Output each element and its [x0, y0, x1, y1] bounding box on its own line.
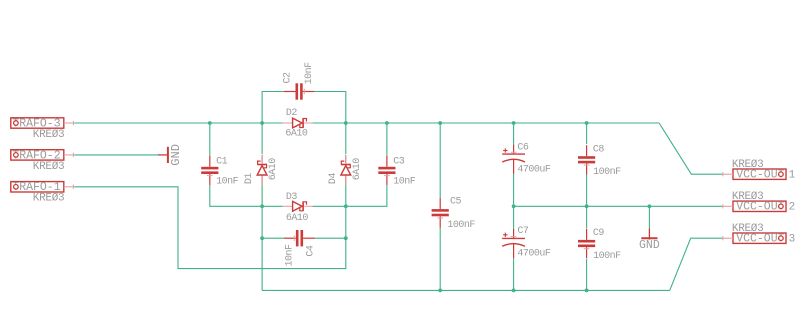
wire left bridge column down to bottom rail: [261, 206, 263, 290]
wire C8 bottom to mid rail: [586, 175, 588, 207]
svg-text:D3: D3: [286, 192, 298, 203]
connector X1 TRAFO-3 (KRE03): [11, 117, 74, 140]
connector X6 VCC-OUT pin 3 (KRE03): [723, 223, 796, 246]
wire top rail left segment (AC1): [74, 122, 283, 124]
wire C6 bottom to mid rail: [513, 174, 515, 206]
ground GND2 (on output mid rail): [639, 228, 660, 252]
wire TRAFO-2 to GND: [74, 154, 158, 156]
wire top rail right segment (V+ rail): [313, 122, 659, 124]
label C9 value: [593, 251, 621, 262]
label C4 name: [306, 245, 317, 257]
wire left bridge column upper (to D1 cathode): [261, 123, 263, 154]
svg-text:KREØ3: KREØ3: [33, 161, 65, 173]
svg-text:C5: C5: [450, 196, 462, 207]
label D2 name: [286, 108, 298, 119]
wire mid rail (VCC-OUT 2): [514, 205, 723, 207]
svg-text:C3: C3: [393, 157, 405, 168]
connector X5 VCC-OUT pin 2 (KRE03): [723, 191, 796, 214]
junction at (262.1,206.3) on mid wire: [260, 204, 264, 208]
junction at (386.9,123.0) on top rail: [385, 121, 389, 125]
wire TRAFO-1 route to bridge: [74, 187, 346, 269]
label C2 name: [283, 72, 294, 84]
diode D3 (6A10): [283, 201, 313, 211]
label D4 name: [328, 173, 339, 185]
wire C4 segment right: [314, 237, 345, 239]
svg-text:1: 1: [789, 170, 796, 182]
svg-text:10nF: 10nF: [393, 177, 416, 188]
label C3 value: [393, 177, 416, 188]
svg-text:D2: D2: [286, 108, 298, 119]
svg-text:6A10: 6A10: [352, 158, 363, 181]
svg-text:100nF: 100nF: [593, 251, 621, 262]
svg-text:KREØ3: KREØ3: [732, 191, 764, 203]
capacitor C4: [284, 230, 315, 246]
wire C9 top connection: [586, 206, 588, 228]
junction at (586.6,123.0) on top rail: [585, 121, 589, 125]
wire right bridge column upper (to D4 cathode): [345, 123, 347, 154]
svg-text:3: 3: [789, 234, 796, 246]
wire left bridge column lower (D1 anode to mid node): [261, 185, 263, 206]
junction at (262.1,123.0) on top rail: [260, 121, 264, 125]
capacitor C9: [578, 229, 595, 258]
junction at (440.2,123.0) on top rail: [438, 121, 442, 125]
label C8 name: [593, 144, 605, 155]
wire D3 segment left: [262, 205, 283, 207]
junction at (586.6,290.4) on bottom rail: [585, 289, 589, 293]
svg-text:C7: C7: [517, 226, 529, 237]
svg-text:D4: D4: [328, 173, 339, 185]
svg-text:KREØ3: KREØ3: [33, 129, 65, 141]
svg-text:C2: C2: [283, 72, 294, 84]
label C3 name: [393, 157, 405, 168]
svg-text:KREØ3: KREØ3: [33, 193, 65, 205]
wire C8 top connection: [586, 123, 588, 144]
label C2 value: [304, 62, 315, 85]
wire right bridge column lower (D4 anode to mid node): [345, 185, 347, 206]
wire C2 loop right: [313, 92, 346, 124]
connector X2 TRAFO-2 (KRE03): [11, 149, 74, 173]
wire C7 bottom to bottom rail: [513, 258, 515, 290]
svg-text:100nF: 100nF: [593, 167, 621, 178]
svg-text:C8: C8: [593, 144, 605, 155]
junction at (209.8,123.0) on top rail: [208, 121, 212, 125]
svg-text:C9: C9: [593, 228, 605, 239]
junction at (262.1,238.2) on C4 wire: [260, 236, 264, 240]
svg-text:C6: C6: [517, 142, 529, 153]
label C1 value: [216, 177, 239, 188]
label C9 name: [593, 228, 605, 239]
label C4 value: [285, 244, 296, 267]
svg-text:GND: GND: [639, 239, 660, 252]
label D1 name: [244, 173, 255, 185]
wire C5 bottom to bottom rail: [439, 227, 441, 290]
svg-text:6A10: 6A10: [268, 158, 279, 181]
wire C2 loop left: [262, 92, 284, 124]
svg-text:KREØ3: KREØ3: [732, 159, 764, 171]
svg-text:C4: C4: [306, 245, 317, 257]
capacitor C8: [578, 145, 595, 174]
wire D3 segment right: [313, 205, 346, 207]
svg-text:100nF: 100nF: [447, 220, 475, 231]
wire C3 top connection: [386, 123, 388, 156]
junction at (649.4,206.3) on mid wire: [648, 204, 652, 208]
junction at (440.2,290.4) on bottom rail: [438, 289, 442, 293]
svg-text:4700uF: 4700uF: [517, 165, 551, 176]
label C6 value: [517, 165, 551, 176]
capacitor C3: [378, 156, 395, 185]
capacitor C2: [284, 83, 315, 99]
label D4 value: [352, 158, 363, 181]
wire C6 top connection: [513, 123, 515, 145]
junction at (345.8,123.0) on top rail: [344, 121, 348, 125]
label C5 value: [447, 220, 475, 231]
svg-text:GND: GND: [169, 144, 183, 166]
wire C1 bottom to mid node: [210, 185, 262, 206]
connector X3 TRAFO-1 (KRE03): [11, 181, 74, 205]
label C8 value: [593, 167, 621, 178]
svg-text:10nF: 10nF: [285, 244, 296, 267]
svg-text:2: 2: [789, 202, 796, 214]
capacitor C5: [432, 198, 449, 227]
wire mid node to C3 bottom: [346, 185, 387, 206]
junction at (513.6,206.3) on mid wire: [512, 204, 516, 208]
ground GND1 (at transformer center tap): [158, 144, 183, 166]
svg-text:4700uF: 4700uF: [517, 249, 551, 260]
junction at (513.6,123.0) on top rail: [512, 121, 516, 125]
wire diagonal to VCC-OUT 3: [670, 238, 723, 290]
label C1 name: [216, 157, 228, 168]
wire C4 segment left: [262, 237, 286, 239]
svg-text:C1: C1: [216, 157, 228, 168]
junction at (586.6,206.3) on mid wire: [585, 204, 589, 208]
capacitor C6 (polarized): [502, 145, 525, 174]
wire GND tap from mid rail: [648, 206, 650, 228]
capacitor C1: [201, 156, 218, 185]
diode D1 (6A10): [257, 155, 267, 185]
capacitor C7 (polarized): [502, 229, 525, 258]
wire bottom rail: [262, 289, 670, 291]
svg-text:KREØ3: KREØ3: [732, 223, 764, 235]
label D1 value: [268, 158, 279, 181]
wire diagonal to VCC-OUT 1: [659, 123, 722, 174]
svg-text:10nF: 10nF: [304, 62, 315, 85]
junction at (513.6,290.4) on bottom rail: [512, 289, 516, 293]
wire C1 top connection: [209, 123, 211, 156]
label C7 value: [517, 249, 551, 260]
wire C7 top connection: [513, 206, 515, 229]
diode D4 (6A10): [341, 155, 351, 185]
junction at (345.8,206.3) on mid wire: [344, 204, 348, 208]
svg-text:6A10: 6A10: [285, 129, 308, 140]
connector X4 VCC-OUT pin 1 (KRE03): [723, 159, 796, 182]
svg-text:D1: D1: [244, 173, 255, 185]
label C6 name: [517, 142, 529, 153]
diode D2 (6A10): [283, 118, 313, 128]
label D3 value: [286, 213, 309, 224]
label D3 name: [286, 192, 298, 203]
svg-text:10nF: 10nF: [216, 177, 239, 188]
wire right bridge column to C4 node: [345, 206, 347, 238]
wire C9 bottom to bottom rail: [586, 259, 588, 291]
junction at (345.8,238.2) on C4 wire: [344, 236, 348, 240]
label C7 name: [517, 226, 529, 237]
label C5 name: [450, 196, 462, 207]
label D2 value: [285, 129, 308, 140]
svg-text:6A10: 6A10: [286, 213, 309, 224]
wire C5 top connection: [439, 123, 441, 198]
